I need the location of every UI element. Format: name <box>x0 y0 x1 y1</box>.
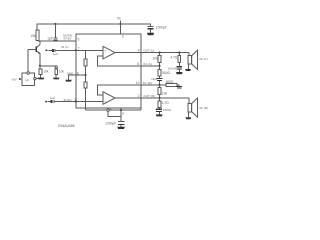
wire A1 +input <box>76 49 103 51</box>
svg-text:6: 6 <box>137 62 139 66</box>
speaker LS2 <box>188 98 208 117</box>
capacitor C7 100nF zobel L <box>168 66 182 72</box>
node rail-C2 <box>54 23 56 25</box>
ground for GND pin <box>65 80 72 82</box>
svg-text:15k: 15k <box>30 34 36 38</box>
node rail-pin3 <box>119 23 121 25</box>
ground zobel R <box>156 114 163 116</box>
internal resistor RB <box>84 82 87 88</box>
svg-text:4: 4 <box>138 48 140 52</box>
pin 2 label <box>138 94 155 98</box>
ground for C9 <box>117 127 125 129</box>
node circle bottom A <box>107 109 109 111</box>
node OUT(L)-zobel <box>178 52 180 54</box>
svg-text:22µF: 22µF <box>151 77 157 81</box>
svg-text:Vs: Vs <box>117 17 121 21</box>
capacitor C6 22uF R <box>177 85 183 89</box>
ground for R3 <box>38 78 45 80</box>
svg-text:4.7Ω: 4.7Ω <box>170 55 177 59</box>
wire ground rail <box>86 109 142 111</box>
svg-text:5: 5 <box>78 38 80 42</box>
op-amp A1 <box>103 46 115 59</box>
node IN-(R) junction <box>158 84 160 86</box>
pin stub bottom B <box>120 108 122 110</box>
pin 4 label <box>138 48 154 52</box>
ground for C1 <box>147 33 154 35</box>
svg-text:3: 3 <box>122 35 124 39</box>
resistor R5 10k <box>153 53 161 66</box>
ground speaker R <box>186 117 192 119</box>
label MUTE/ST-BY <box>63 34 72 41</box>
wire A1 output <box>115 52 141 54</box>
wire U link bottom pins <box>108 111 121 116</box>
svg-text:GND: GND <box>67 72 75 76</box>
svg-text:+: + <box>104 100 106 104</box>
svg-text:8: 8 <box>77 72 79 76</box>
node terminal circle R4 <box>55 66 57 68</box>
resistor R1 15k <box>30 30 39 41</box>
svg-text:+: + <box>104 49 106 53</box>
wire OUT(R) <box>141 97 189 99</box>
capacitor C2 1uF <box>47 24 57 41</box>
svg-text:1µF: 1µF <box>50 96 55 100</box>
pin 10 label <box>136 81 152 85</box>
capacitor C5 22uF <box>151 76 162 85</box>
speaker LS1 <box>188 50 208 69</box>
wire base column to uC <box>27 49 29 71</box>
node dot bottom B <box>120 109 122 111</box>
node GND junction <box>84 74 86 76</box>
svg-text:OUT (L): OUT (L) <box>144 48 155 52</box>
wire GND outside <box>69 75 77 80</box>
svg-text:10k: 10k <box>43 69 49 73</box>
wire uC output <box>36 78 38 80</box>
svg-text:ST-BY: ST-BY <box>63 36 71 40</box>
pin 6 label <box>137 62 152 66</box>
wire IN-(R) ext <box>141 84 167 86</box>
wire to C9 <box>120 110 122 121</box>
capacitor C8 100nF zobel R <box>156 108 171 114</box>
svg-text:IN (R): IN (R) <box>64 98 72 102</box>
resistor R9 560 horizontal <box>166 80 180 86</box>
svg-text:1µF: 1µF <box>47 37 53 41</box>
capacitor C9 1000uF <box>105 121 124 127</box>
ground zobel L <box>176 72 183 74</box>
svg-text:100nF: 100nF <box>168 67 177 71</box>
wire OUT(L) <box>141 52 189 54</box>
resistor R7 10k <box>158 85 167 98</box>
wire IN-(L) ext <box>141 65 160 67</box>
resistor R6 560 <box>158 66 170 76</box>
svg-text:560Ω: 560Ω <box>166 80 174 84</box>
wire emitter junction to R4 <box>40 65 55 67</box>
pin stub bottom A <box>107 107 109 110</box>
uC box <box>22 72 36 86</box>
wire VS top rail <box>37 24 150 30</box>
wire RB to bottom <box>85 88 87 110</box>
svg-text:IN (L): IN (L) <box>61 45 69 49</box>
node pin1 <box>75 101 77 103</box>
svg-text:4.7Ω: 4.7Ω <box>162 101 169 105</box>
svg-text:1000µF: 1000µF <box>105 122 116 126</box>
wire A1 feedback loop <box>98 56 141 66</box>
wire A2 output <box>115 97 141 99</box>
wire A2 feedback loop <box>98 85 141 95</box>
node IN-(L) junction <box>158 65 160 67</box>
transistor Q1 <box>28 41 40 66</box>
svg-text:RL (R): RL (R) <box>200 106 209 110</box>
svg-text:10k: 10k <box>59 69 65 73</box>
resistor R10 4.7 zobel R <box>158 98 169 109</box>
ground for R4 <box>53 78 60 80</box>
resistor R3 10k <box>39 66 49 78</box>
op-amp A2 <box>103 92 115 105</box>
internal resistor RA <box>84 59 87 66</box>
wire IN(R) <box>54 101 103 103</box>
internal bias column <box>85 50 87 59</box>
svg-text:10k: 10k <box>162 92 168 96</box>
wire RA to RB <box>85 66 87 82</box>
resistor R8 4.7 zobel L <box>170 53 180 67</box>
capacitor C3 1uF input L <box>48 49 58 56</box>
svg-text:560Ω: 560Ω <box>162 71 170 75</box>
resistor R4 10k <box>55 68 64 78</box>
svg-text:10k: 10k <box>153 57 159 61</box>
node emitter junction <box>39 65 41 67</box>
node OUT(R) junction <box>158 97 160 99</box>
node OUT(L)-R5 <box>158 52 160 54</box>
terminal +5V <box>11 77 22 81</box>
ground speaker L <box>185 69 191 71</box>
svg-text:1µF: 1µF <box>53 52 58 56</box>
pin 3 stub <box>121 24 124 39</box>
IC box U1 <box>76 34 141 108</box>
node pin7 <box>75 49 77 51</box>
capacitor C4 1uF input R <box>48 96 55 103</box>
svg-text:OUT (R): OUT (R) <box>144 94 155 98</box>
svg-text:RL (L): RL (L) <box>200 57 208 61</box>
wire box right edge extension <box>140 108 142 110</box>
svg-text:100nF: 100nF <box>163 108 172 112</box>
svg-text:+5V: +5V <box>11 77 16 81</box>
wire IN(L) <box>55 49 76 51</box>
svg-text:IN- (R): IN- (R) <box>143 81 152 85</box>
svg-text:10: 10 <box>136 81 140 85</box>
svg-text:2: 2 <box>138 94 140 98</box>
wire MUTE net <box>38 40 77 42</box>
svg-text:D94AU085: D94AU085 <box>58 124 75 128</box>
terminal input R arrow <box>45 101 48 103</box>
terminal input L arrow <box>46 49 49 51</box>
terminal VS <box>117 17 121 24</box>
svg-text:1000µF: 1000µF <box>156 26 167 30</box>
capacitor C1 1000uF <box>147 26 166 33</box>
wire GND stub inside <box>76 74 86 76</box>
